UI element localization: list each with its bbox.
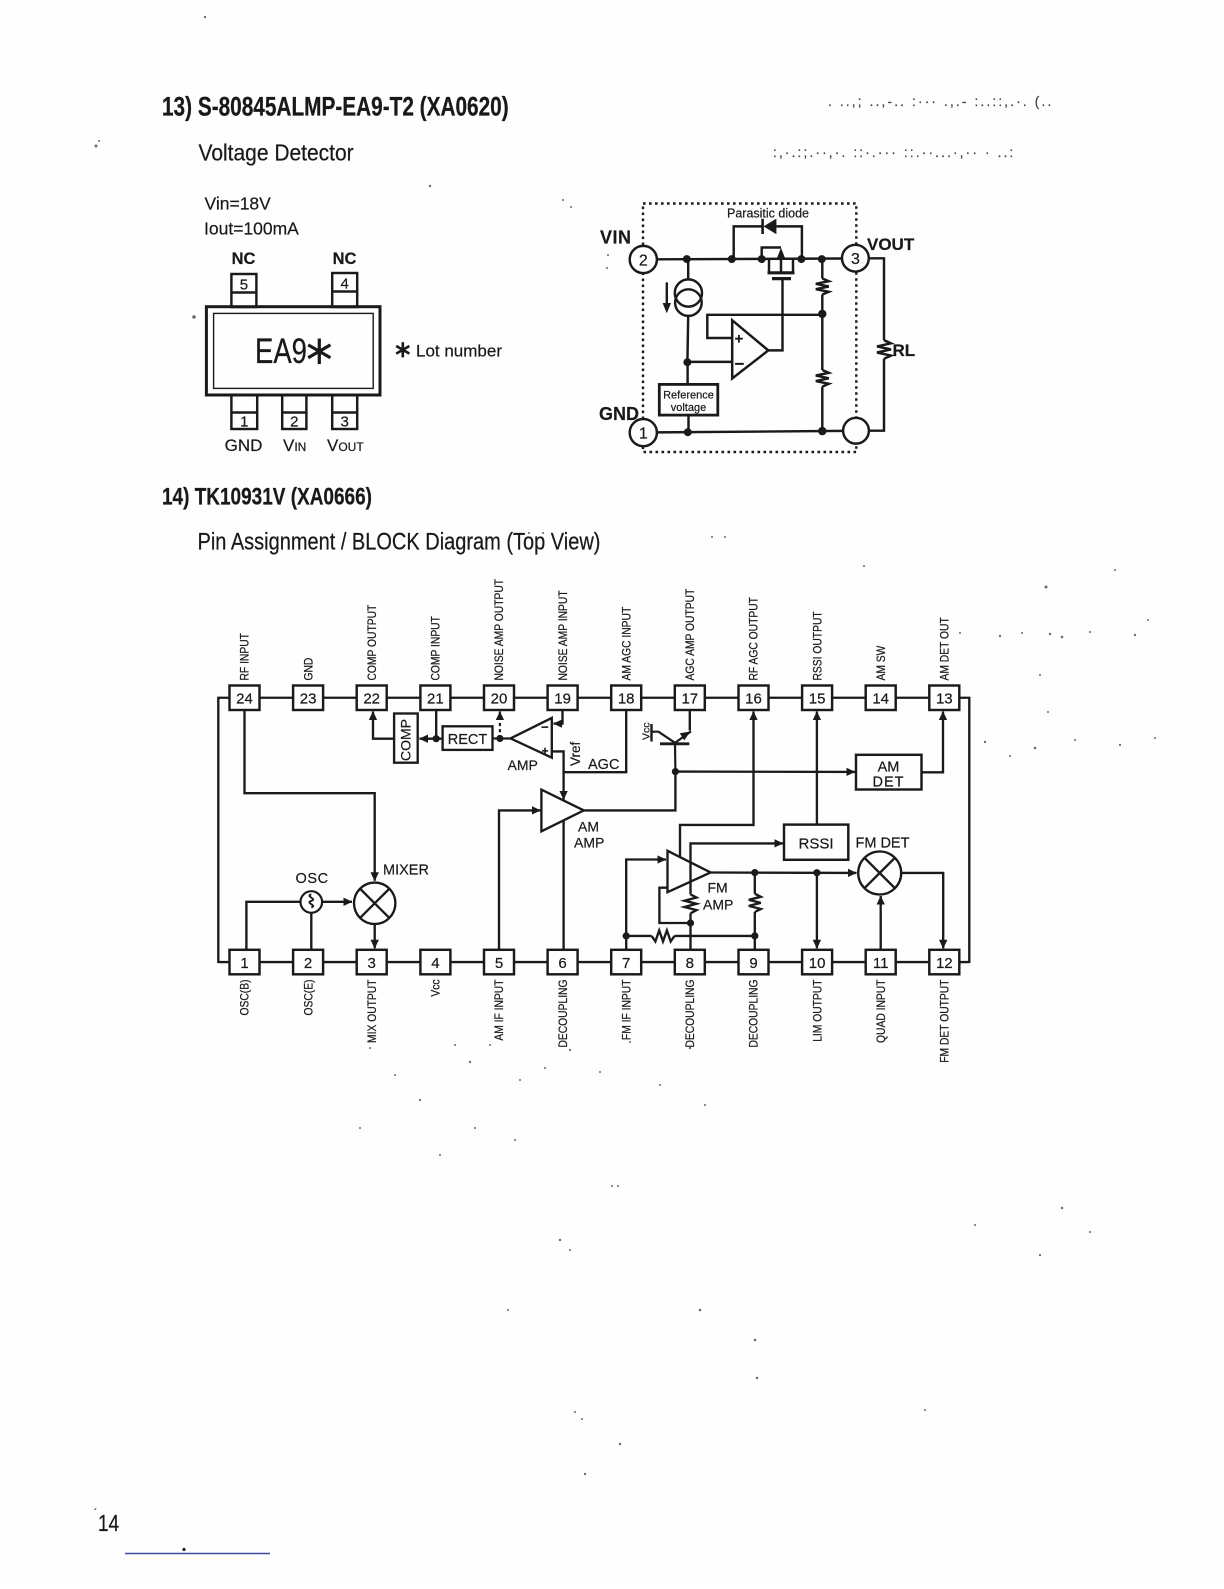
faint scan smudge [773, 94, 1053, 160]
pin 6 box (DECOUPLING) [548, 950, 578, 975]
wire reference to box [686, 362, 688, 384]
svg-text::,·.:;.··,·. ::·.··· ::.··..: :,·.:;.··,·. ::·.··· ::.··...·,·· · ..: [773, 145, 1016, 160]
op-amp comparator [732, 320, 768, 378]
wire pin1 to OSC [246, 902, 300, 950]
svg-text:COMP: COMP [398, 719, 414, 761]
svg-text:2: 2 [639, 253, 648, 270]
svg-text:LIM OUTPUT: LIM OUTPUT [812, 979, 825, 1042]
wire MOSFET gate to op-amp output [769, 280, 783, 351]
svg-text:+: + [735, 331, 744, 348]
junction dot GND rail [684, 428, 692, 436]
IC outline top bus [218, 697, 969, 699]
svg-text:AGC AMP OUTPUT: AGC AMP OUTPUT [685, 588, 698, 680]
svg-text:AMP: AMP [703, 897, 733, 913]
svg-text:OSC(B): OSC(B) [239, 980, 252, 1016]
svg-text:FM DET OUTPUT: FM DET OUTPUT [939, 979, 952, 1063]
legend: * Lot number [396, 342, 409, 357]
wire pin2 to OSC bottom [310, 913, 312, 950]
svg-text:Vcc: Vcc [430, 979, 443, 997]
svg-text:Iout=100mA: Iout=100mA [204, 219, 299, 239]
wire inverting input [687, 361, 731, 363]
noise amp AMP triangle (points left) [511, 718, 552, 758]
junction dot FM out / pin10 [813, 869, 820, 876]
svg-text:14: 14 [98, 1511, 119, 1536]
wire to pin10 LIM output [816, 873, 818, 949]
pin 3 (VOUT) [332, 395, 357, 429]
junction dot divider mid [818, 310, 826, 318]
svg-text:14: 14 [872, 691, 889, 708]
dotted wire to pin20 [499, 712, 501, 739]
junction dot pin21 node [433, 735, 440, 742]
svg-text:18: 18 [618, 691, 635, 708]
pin 2 (VIN) [282, 395, 306, 429]
wire pin6 decoupling to AM amp [562, 820, 564, 950]
wire OSC to mixer [322, 901, 352, 903]
lot number asterisk on package [308, 339, 330, 365]
svg-text:Vref: Vref [568, 741, 583, 766]
svg-text:+: + [542, 744, 549, 758]
svg-text:RSSI: RSSI [798, 836, 833, 853]
svg-text:AM AGC INPUT: AM AGC INPUT [621, 606, 634, 680]
pin 19 box (NOISE AMP INPUT) [548, 686, 578, 711]
wire pin24 RF input to mixer [245, 710, 375, 881]
svg-text:−: − [735, 355, 745, 374]
svg-text:. ..,; ..,-.. :··· .,.- :..::,: . ..,; ..,-.. :··· .,.- :..::,.·. (.. [828, 94, 1053, 109]
FM DET quadrature mixer circle [858, 852, 901, 895]
FM amp output wire to FM DET [711, 871, 857, 874]
svg-text:NOISE AMP OUTPUT: NOISE AMP OUTPUT [494, 579, 507, 681]
svg-text:2: 2 [304, 955, 312, 972]
rectifier RECT box [443, 726, 493, 750]
svg-text:14) TK10931V (XA0666): 14) TK10931V (XA0666) [162, 482, 372, 510]
pin 5 (NC) [231, 274, 256, 307]
pin 1 (GND) [231, 395, 257, 429]
svg-text:NC: NC [333, 250, 357, 268]
pin 14 box (AM SW) [866, 686, 896, 711]
svg-text:´: ´ [94, 1507, 97, 1519]
svg-text:GND: GND [303, 658, 316, 681]
pin 4 (NC) [332, 273, 357, 307]
wire Vref / AGC node [552, 751, 564, 799]
pin circle GND right (unnumbered) [843, 418, 869, 444]
pin 5 box (AM IF INPUT) [484, 950, 514, 975]
pin 20 box (NOISE AMP OUTPUT) [484, 686, 514, 711]
svg-text:OSC(E): OSC(E) [303, 980, 316, 1016]
svg-text:22: 22 [363, 691, 380, 708]
FM amp load resistor to output [754, 912, 756, 936]
oscillator OSC circle [301, 891, 323, 913]
MOSFET M1 pass transistor [762, 248, 795, 279]
comparator COMP box [394, 714, 418, 763]
mixer circle [354, 883, 395, 924]
svg-text:9: 9 [749, 955, 757, 972]
svg-text:1: 1 [639, 426, 648, 443]
pin 8 box (DECOUPLING) [675, 950, 705, 975]
svg-text:GND: GND [599, 404, 639, 424]
junction dot pin7 node [623, 932, 630, 939]
svg-text:AMP: AMP [574, 835, 604, 851]
svg-text:NC: NC [232, 250, 256, 268]
wire pin19 to noise amp inverting input [554, 710, 563, 724]
svg-text:15: 15 [809, 691, 826, 708]
reference voltage box [659, 384, 718, 415]
IC outline right edge [968, 697, 970, 963]
svg-text:AM SW: AM SW [875, 645, 888, 681]
junction dot FM out / resistor [751, 869, 758, 876]
junction dot pin8 node [687, 919, 694, 926]
pin circle 1 GND [630, 419, 657, 446]
wire to AM DET [675, 770, 855, 773]
pin 11 box (QUAD INPUT) [866, 950, 896, 975]
svg-text:voltage: voltage [671, 402, 706, 414]
pin circle 3 VOUT [842, 245, 869, 272]
svg-text:OSC: OSC [296, 871, 329, 887]
svg-text:VOUT: VOUT [867, 235, 915, 254]
pin 13 box (AM DET OUT) [929, 686, 959, 711]
svg-text:AM: AM [878, 760, 900, 776]
pin 2 box (OSC(E)) [293, 950, 323, 975]
svg-text:17: 17 [681, 691, 698, 708]
svg-text:7: 7 [622, 955, 630, 972]
svg-text:VIN: VIN [600, 228, 632, 248]
current direction arrow [666, 282, 668, 305]
pin circle 2 VIN [630, 246, 657, 273]
wire pin17 to transistor emitter [689, 710, 691, 731]
svg-text:RECT: RECT [448, 732, 488, 748]
parasitic diode D1 branch [734, 226, 762, 259]
RSSI box [784, 825, 848, 860]
IC outline left edge [217, 697, 219, 963]
pin 15 box (RSSI OUTPUT) [802, 686, 832, 711]
pin 3 box (MIX OUTPUT) [357, 950, 387, 975]
svg-text:AM: AM [578, 819, 599, 835]
footer blue rule [125, 1553, 270, 1555]
svg-text:19: 19 [554, 691, 571, 708]
FM amp feedback loop [659, 888, 690, 923]
svg-text:RL: RL [893, 341, 916, 360]
svg-text:Voltage Detector: Voltage Detector [198, 139, 354, 165]
wire pin18 AGC input [564, 710, 627, 772]
svg-text:DECOUPLING: DECOUPLING [557, 980, 570, 1048]
svg-text:13) S-80845ALMP-EA9-T2 (XA0620: 13) S-80845ALMP-EA9-T2 (XA0620) [162, 92, 509, 122]
FM amp internal resistor [685, 894, 697, 913]
svg-text:Reference: Reference [663, 390, 714, 402]
wire FM amp node to RSSI input [691, 843, 784, 894]
AM AMP triangle [541, 790, 583, 832]
AM DET box [856, 755, 922, 790]
pin 22 box (COMP OUTPUT) [357, 686, 387, 711]
pin 12 box (FM DET OUTPUT) [929, 950, 959, 975]
svg-text:AM IF INPUT: AM IF INPUT [494, 979, 507, 1040]
svg-text:COMP INPUT: COMP INPUT [430, 616, 443, 681]
svg-text:1: 1 [240, 414, 248, 431]
svg-text:Lot number: Lot number [416, 342, 502, 361]
svg-text:13: 13 [936, 691, 953, 708]
svg-text:QUAD INPUT: QUAD INPUT [875, 979, 888, 1043]
svg-text:RF INPUT: RF INPUT [239, 633, 252, 681]
svg-text:2: 2 [290, 414, 298, 431]
svg-text:GND: GND [225, 436, 263, 455]
AGC transistor Q1 [652, 724, 692, 772]
current source I1 [687, 259, 689, 280]
svg-text:RSSI OUTPUT: RSSI OUTPUT [812, 611, 825, 680]
wire AM DET to pin13 [922, 712, 944, 773]
wire RSSI to pin15 [816, 712, 818, 825]
resistor divider lower R [821, 315, 823, 370]
junction dot AM det node [672, 768, 679, 775]
svg-text:8: 8 [686, 955, 694, 972]
svg-text:Pin Assignment / BLOCK Diagram: Pin Assignment / BLOCK Diagram (Top View… [198, 528, 601, 555]
wire pin22 from COMP [373, 712, 394, 739]
svg-text:MIXER: MIXER [383, 863, 429, 879]
wire pin5 to AM amp input [499, 810, 541, 949]
svg-text:AGC: AGC [588, 757, 619, 773]
horizontal resistor pin7-pin9 [626, 935, 651, 937]
wire pin11 quad input to FM DET [880, 896, 882, 950]
main VIN rail wire [657, 257, 843, 260]
svg-text:DECOUPLING: DECOUPLING [685, 980, 698, 1048]
wire RL to GND pin [869, 359, 884, 431]
pin 1 box (OSC(B)) [230, 950, 260, 975]
pin 4 box (Vcc) [420, 950, 450, 975]
pin 21 box (COMP INPUT) [420, 686, 450, 711]
svg-text:COMP OUTPUT: COMP OUTPUT [366, 604, 379, 680]
pin 17 box (AGC AMP OUTPUT) [675, 686, 705, 711]
pin 10 box (LIM OUTPUT) [802, 950, 832, 975]
junction dot divider bottom [818, 427, 826, 435]
svg-text:4: 4 [341, 276, 349, 293]
pin 23 box (GND) [293, 686, 323, 711]
wire pin9 riser [754, 936, 756, 950]
wire RECT to noise amp [493, 737, 511, 739]
IC package body EA9 [206, 307, 380, 395]
junction dot noise amp output node [496, 735, 503, 742]
wire VOUT to RL [869, 258, 884, 340]
svg-text:DECOUPLING: DECOUPLING [748, 980, 761, 1048]
pin 7 box (FM IF INPUT) [611, 950, 641, 975]
wire RECT to COMP [420, 738, 443, 740]
svg-text:Parasitic diode: Parasitic diode [727, 207, 809, 221]
resistor RL [877, 340, 891, 359]
svg-text:11: 11 [873, 955, 889, 972]
svg-text:23: 23 [300, 691, 317, 708]
IC outline bottom bus [218, 961, 969, 963]
svg-text:24: 24 [236, 691, 253, 708]
wire FM DET output to pin12 [901, 873, 943, 948]
svg-text:Vin=18V: Vin=18V [205, 194, 272, 214]
svg-text:AMP: AMP [508, 757, 538, 773]
svg-text:3: 3 [851, 251, 860, 268]
wire pin7 to FM amp input [626, 860, 666, 950]
svg-text:3: 3 [368, 955, 376, 972]
pin 16 box (RF AGC OUTPUT) [739, 686, 769, 711]
pin 9 box (DECOUPLING) [739, 950, 769, 975]
bottom GND rail wire [657, 431, 843, 433]
svg-text:MIX OUTPUT: MIX OUTPUT [366, 979, 379, 1043]
pin 18 box (AM AGC INPUT) [611, 686, 641, 711]
svg-text:Vcc: Vcc [641, 722, 653, 740]
wire reference box to GND rail [687, 415, 689, 432]
svg-text:5: 5 [495, 955, 503, 972]
svg-text:FM: FM [708, 880, 728, 896]
scan speck dots [204, 16, 206, 18]
svg-text:RF AGC OUTPUT: RF AGC OUTPUT [748, 597, 761, 681]
svg-text:EA9: EA9 [255, 332, 307, 371]
svg-text:20: 20 [491, 691, 508, 708]
wire AM amp output [584, 772, 676, 811]
FM AMP triangle [668, 851, 711, 892]
pin 24 box (RF INPUT) [230, 686, 260, 711]
svg-text:12: 12 [936, 955, 953, 972]
svg-text:16: 16 [745, 691, 762, 708]
resistor divider upper R [821, 259, 823, 278]
svg-text:1: 1 [240, 955, 248, 972]
svg-text:−: − [541, 720, 549, 735]
svg-text:AM DET OUT: AM DET OUT [939, 617, 952, 681]
wire mixer to pin3 [374, 924, 376, 948]
svg-text:21: 21 [427, 691, 444, 708]
svg-text:5: 5 [240, 277, 248, 294]
wire pin16 RF AGC to FM amp [680, 712, 754, 858]
junction dot pin9 node [751, 932, 758, 939]
junction dots on VIN rail [683, 255, 691, 263]
wire pin21 to comp input node [435, 710, 437, 739]
detector IC dashed boundary [643, 204, 856, 453]
junction dot reference node [683, 358, 691, 366]
svg-text:3: 3 [341, 414, 349, 431]
svg-text:FM DET: FM DET [856, 836, 910, 852]
feedback wire divider to non-inverting input [707, 315, 822, 338]
svg-text:NOISE AMP INPUT: NOISE AMP INPUT [557, 590, 570, 680]
svg-text:4: 4 [431, 955, 439, 972]
svg-text:6: 6 [558, 955, 566, 972]
svg-text:FM IF INPUT: FM IF INPUT [621, 979, 634, 1040]
svg-text:10: 10 [809, 955, 826, 972]
svg-text:DET: DET [873, 775, 905, 791]
